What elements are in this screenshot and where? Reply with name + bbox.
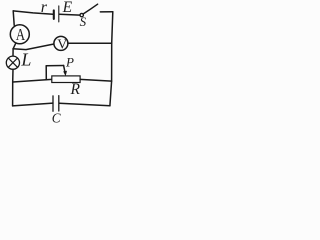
- svg-text:E: E: [62, 0, 73, 16]
- rheostat R body: [52, 76, 80, 83]
- voltmeter V body: [54, 36, 68, 50]
- svg-text:A: A: [16, 25, 26, 44]
- wire: capacitor to bottom-left corner: [13, 103, 53, 106]
- svg-text:V: V: [57, 36, 67, 51]
- wire: switch fixed contact to top-right corner: [100, 11, 113, 13]
- wire: right side vertical: [110, 12, 113, 106]
- wire: rheostat branch left: [13, 79, 52, 82]
- svg-text:r: r: [41, 0, 48, 16]
- svg-text:P: P: [65, 55, 74, 70]
- svg-text:R: R: [70, 81, 81, 98]
- battery E r: negative short thick plate: [53, 10, 55, 19]
- wire: voltmeter branch left: [13, 44, 54, 50]
- lamp L body: [6, 56, 19, 69]
- rheostat wiper P arrow shaft: [64, 66, 66, 74]
- wire: voltmeter branch right to right-side wire: [68, 42, 112, 44]
- wire: rheostat branch right to right-side wire: [80, 79, 112, 81]
- rheostat wiper P arrowhead: [63, 71, 67, 76]
- switch S blade (open): [83, 4, 97, 14]
- ammeter A body: [10, 25, 29, 44]
- wire: bottom side, right corner to capacitor: [59, 103, 110, 106]
- wire: lamp to rheostat junction: [12, 69, 14, 82]
- wire: junction to lamp: [12, 49, 14, 56]
- capacitor C left plate: [52, 96, 54, 111]
- wire: ammeter to junction node below: [13, 43, 16, 49]
- wire: top side, left corner to battery: [13, 11, 53, 14]
- svg-text:L: L: [20, 49, 31, 69]
- lamp L cross: [8, 58, 17, 67]
- svg-text:C: C: [52, 110, 61, 125]
- wire: battery to switch pivot: [59, 13, 80, 16]
- wire: left side top stub (corner down to ammeter): [13, 11, 14, 25]
- battery E r: positive long thin plate: [58, 6, 60, 22]
- wire: left side bottom (lamp junction down to corner): [12, 82, 14, 106]
- svg-text:S: S: [80, 14, 87, 29]
- capacitor C right plate: [58, 96, 60, 111]
- wire: wiper top horizontal: [46, 65, 63, 67]
- wire: rheostat wiper riser: [45, 66, 47, 80]
- switch S pivot circle: [80, 13, 83, 16]
